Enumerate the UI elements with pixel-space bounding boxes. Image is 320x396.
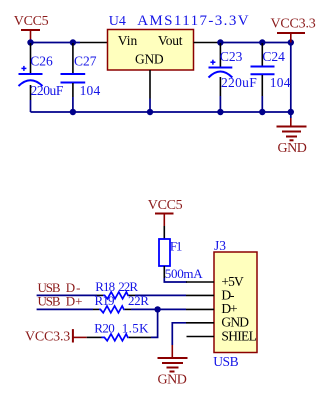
svg-text:220uF: 220uF <box>221 75 257 90</box>
svg-text:USB: USB <box>38 294 61 309</box>
junction dot B3 <box>288 39 294 45</box>
svg-text:VCC3.3: VCC3.3 <box>25 330 70 345</box>
svg-text:VCC3.3: VCC3.3 <box>271 17 316 32</box>
svg-text:GND: GND <box>135 52 164 67</box>
svg-text:Vin: Vin <box>118 33 138 48</box>
svg-text:500mA: 500mA <box>165 266 203 281</box>
ground (bottom) <box>158 345 188 388</box>
svg-text:R18: R18 <box>95 279 114 294</box>
capacitor C26 <box>19 43 64 112</box>
svg-text:104: 104 <box>80 83 101 98</box>
wire USB D- to R18 <box>37 294 97 296</box>
svg-text:AMS1117-3.3V: AMS1117-3.3V <box>137 13 250 29</box>
svg-text:U4: U4 <box>109 14 126 29</box>
resistor R20 1.5K <box>87 321 151 341</box>
wire VCC3.3 drop to bottom rail <box>290 43 292 113</box>
connector J3 <box>186 238 257 369</box>
junction dot C1 <box>70 109 76 115</box>
svg-text:GND: GND <box>158 373 187 388</box>
svg-text:C26: C26 <box>30 54 53 69</box>
svg-text:GND: GND <box>278 141 307 156</box>
wire R19 to D+ pin <box>131 308 186 310</box>
junction dot C2 <box>147 109 153 115</box>
svg-text:C23: C23 <box>220 49 243 64</box>
svg-text:22R: 22R <box>128 293 149 308</box>
capacitor C24 <box>251 43 291 112</box>
svg-text:J3: J3 <box>214 238 226 253</box>
power port VCC5 (top) <box>14 14 49 43</box>
svg-text:USB: USB <box>213 354 238 369</box>
ground (top right) <box>277 112 307 156</box>
junction dot B1 <box>217 39 223 45</box>
regulator U4 AMS1117-3.3V <box>80 13 250 112</box>
svg-text:104: 104 <box>270 75 291 90</box>
power port VCC3.3 (top right) <box>271 17 316 43</box>
junction dot A2 <box>70 39 76 45</box>
junction dot A1 <box>27 39 33 45</box>
svg-text:GND: GND <box>221 315 249 330</box>
svg-text:R19: R19 <box>95 293 114 308</box>
capacitor C27 <box>61 43 101 112</box>
svg-text:VCC5: VCC5 <box>148 198 183 213</box>
svg-text:R20: R20 <box>94 321 114 336</box>
wire top rail left <box>31 42 81 44</box>
junction dot C4 <box>259 109 265 115</box>
wire Vout to VCC3.3 <box>220 42 290 44</box>
junction dot C5 <box>288 109 294 115</box>
svg-text:22R: 22R <box>118 279 138 294</box>
svg-text:D+: D+ <box>66 294 83 309</box>
svg-text:C27: C27 <box>74 54 97 69</box>
svg-text:C24: C24 <box>262 49 285 64</box>
svg-text:1.5K: 1.5K <box>122 321 149 336</box>
power port VCC5 (bottom) <box>148 198 183 226</box>
svg-text:220uF: 220uF <box>31 83 64 98</box>
wire R18 to D- pin <box>135 294 186 296</box>
fuse F1 <box>159 226 203 281</box>
svg-text:SHIEL: SHIEL <box>221 328 256 343</box>
wire GND pin branch <box>172 323 186 345</box>
junction dot C3 <box>217 109 223 115</box>
power port VCC3.3 (bottom) <box>25 329 87 344</box>
svg-text:Vout: Vout <box>158 33 183 48</box>
wire fuse to +5V pin <box>164 278 187 282</box>
junction dot D+ node <box>154 306 160 312</box>
wire R20 to D+ node <box>151 309 158 337</box>
resistor R19 22R <box>93 293 149 313</box>
resistor R18 22R <box>95 279 138 299</box>
wire USB D+ to R19 <box>37 308 93 310</box>
svg-text:F1: F1 <box>170 239 182 254</box>
junction dot B2 <box>259 39 265 45</box>
capacitor C23 <box>209 43 258 112</box>
wire bottom rail <box>31 111 291 113</box>
svg-text:VCC5: VCC5 <box>14 14 49 29</box>
